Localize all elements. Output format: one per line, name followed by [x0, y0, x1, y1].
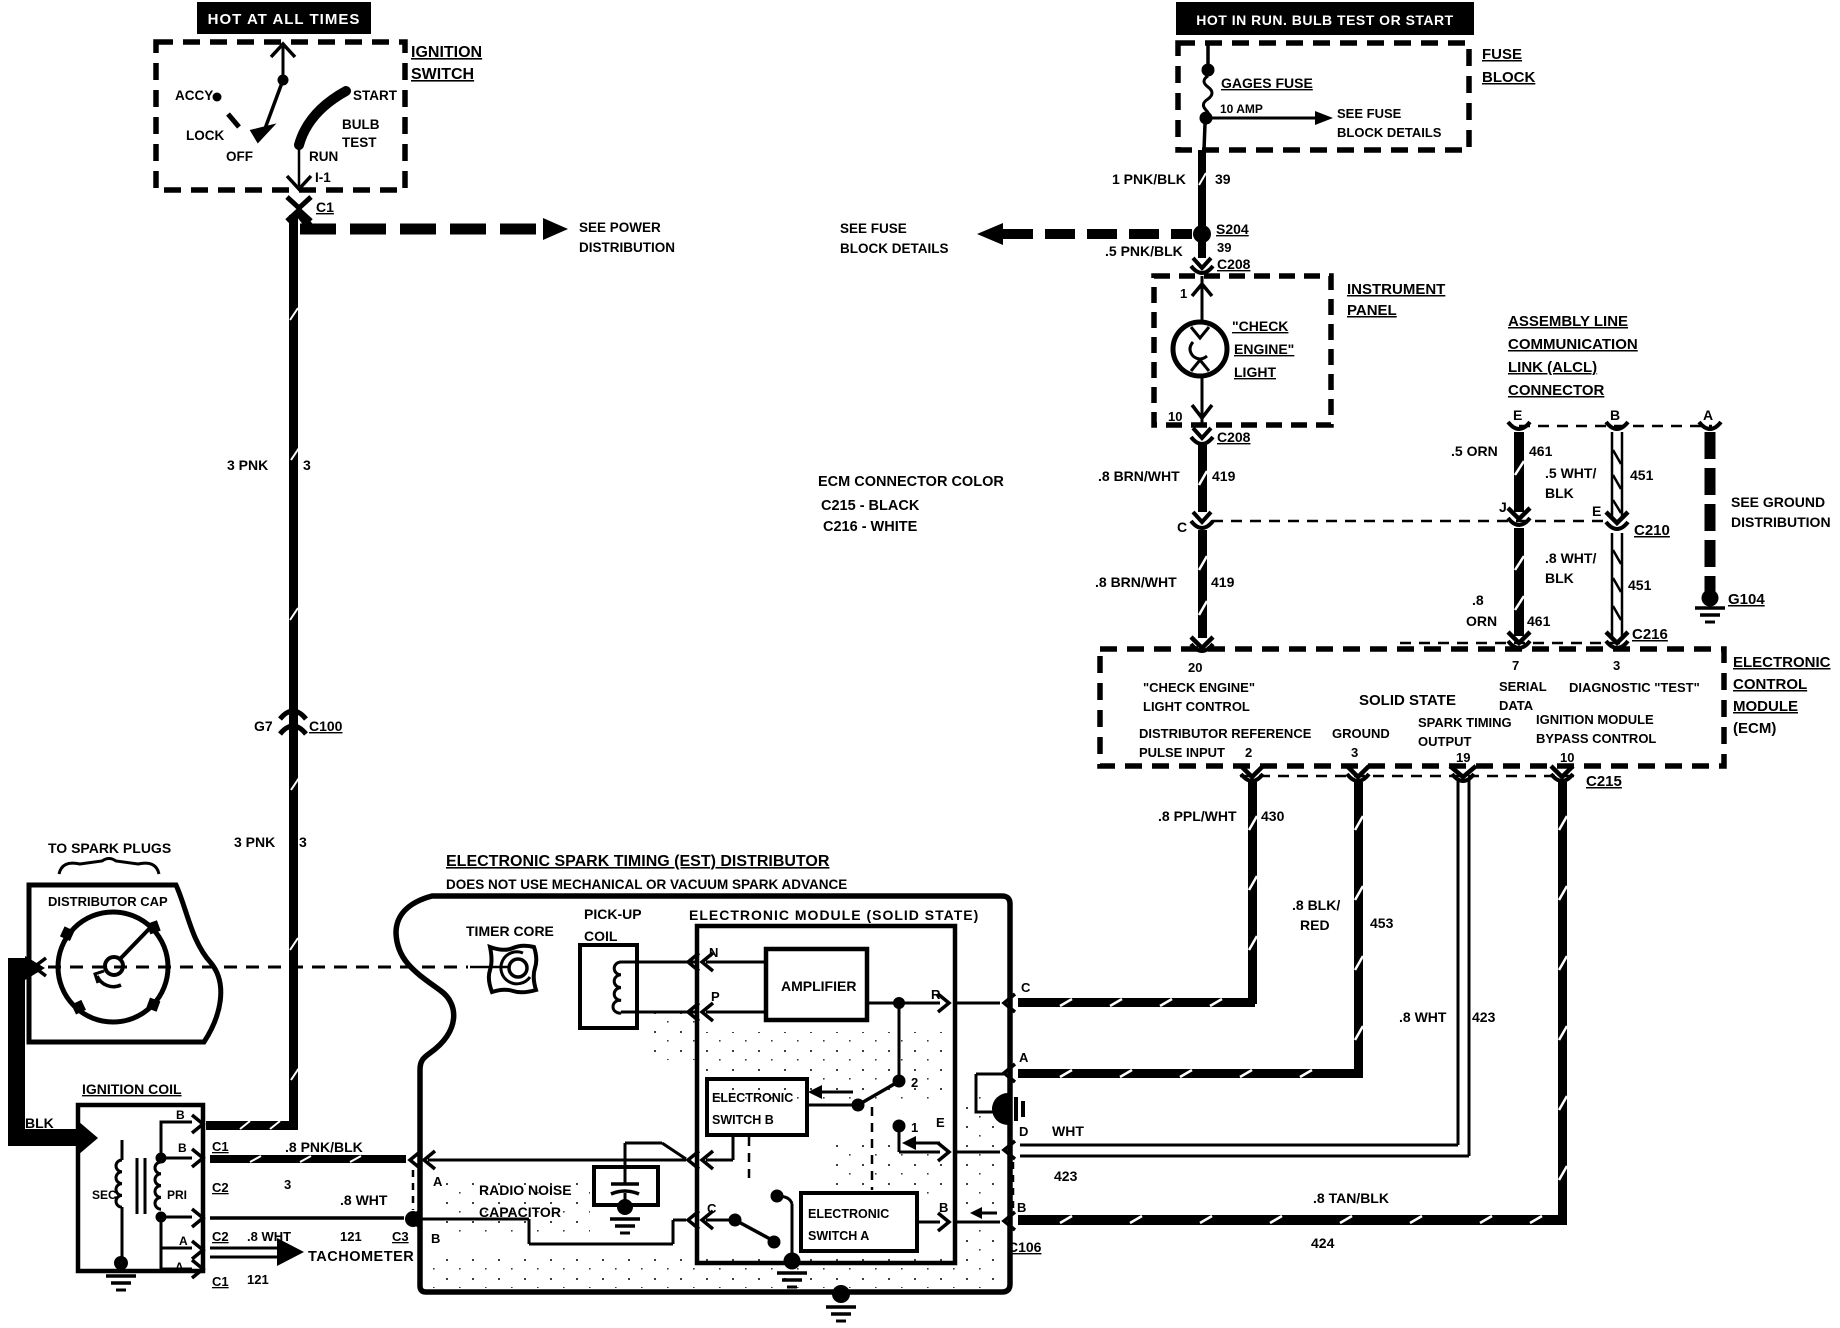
svg-text:SEE GROUND: SEE GROUND [1731, 494, 1825, 510]
svg-text:C210: C210 [1634, 522, 1670, 539]
svg-text:19: 19 [1456, 750, 1470, 765]
label 3 PNK lower [234, 834, 307, 850]
svg-text:LINK (ALCL): LINK (ALCL) [1508, 359, 1597, 376]
coil connector labels [212, 1139, 409, 1289]
ECM label [1733, 654, 1831, 737]
svg-text:3: 3 [299, 834, 307, 850]
ALCL label [1508, 313, 1638, 399]
label .8 WHT/BLK [1545, 550, 1652, 593]
svg-text:G104: G104 [1728, 591, 1765, 608]
svg-text:C1: C1 [212, 1274, 229, 1289]
svg-text:DISTRIBUTOR REFERENCE: DISTRIBUTOR REFERENCE [1139, 726, 1312, 741]
svg-text:121: 121 [340, 1229, 362, 1244]
wire .5 ORN 461 [1451, 432, 1553, 512]
svg-text:SEE POWER: SEE POWER [579, 220, 661, 235]
svg-text:C: C [1177, 519, 1187, 535]
pin 1 [1180, 276, 1212, 322]
svg-text:419: 419 [1211, 574, 1235, 590]
svg-text:2: 2 [911, 1075, 918, 1090]
wire .8 BLK/RED 453 [1004, 782, 1394, 1082]
BULB TEST label [342, 117, 380, 150]
svg-text:MODULE: MODULE [1733, 698, 1798, 715]
svg-text:R: R [931, 987, 941, 1002]
svg-text:451: 451 [1630, 467, 1654, 483]
dashed line C210 row [1212, 520, 1608, 523]
svg-text:INSTRUMENT: INSTRUMENT [1347, 281, 1445, 298]
electronic module box [689, 907, 979, 1263]
switch arm B+ arrow [252, 44, 295, 141]
connector C216 row [1400, 626, 1668, 648]
coil pin chevrons [175, 1108, 203, 1278]
svg-text:.8 BLK/: .8 BLK/ [1292, 897, 1340, 913]
svg-text:.8 WHT: .8 WHT [340, 1192, 388, 1208]
svg-text:C1: C1 [316, 199, 334, 215]
svg-text:COMMUNICATION: COMMUNICATION [1508, 336, 1638, 353]
run output wire [287, 146, 311, 189]
svg-text:C215 - BLACK: C215 - BLACK [821, 498, 920, 514]
svg-text:CONTROL: CONTROL [1733, 676, 1807, 693]
svg-text:ACCY: ACCY [175, 88, 213, 103]
svg-text:ELECTRONIC MODULE (SOLID STATE: ELECTRONIC MODULE (SOLID STATE) [689, 907, 979, 923]
speckle texture patches [428, 1005, 1005, 1288]
svg-text:DISTRIBUTION: DISTRIBUTION [579, 240, 675, 255]
svg-text:2: 2 [1245, 745, 1252, 760]
tach filter blob [976, 1074, 1023, 1125]
svg-text:IGNITION: IGNITION [411, 44, 482, 61]
svg-text:3: 3 [1351, 745, 1358, 760]
wire .8 PPL/WHT 430 [1018, 782, 1285, 1007]
distributor outline [396, 896, 1010, 1292]
svg-text:SWITCH: SWITCH [411, 66, 474, 83]
svg-text:GAGES FUSE: GAGES FUSE [1221, 75, 1313, 91]
START sweep arc [299, 88, 398, 145]
svg-text:BULB: BULB [342, 117, 380, 132]
svg-text:.8 TAN/BLK: .8 TAN/BLK [1313, 1190, 1389, 1206]
svg-text:DISTRIBUTOR CAP: DISTRIBUTOR CAP [48, 894, 168, 909]
see fuse block details arrow [1212, 106, 1442, 140]
svg-text:3: 3 [284, 1177, 291, 1192]
svg-text:7: 7 [1512, 658, 1519, 673]
dashed rotor line [48, 966, 468, 969]
ignition switch label [411, 44, 482, 83]
wire to G104 ground [1695, 432, 1765, 622]
svg-text:C100: C100 [309, 718, 343, 734]
svg-text:.8 PNK/BLK: .8 PNK/BLK [285, 1139, 363, 1155]
svg-text:C216 - WHITE: C216 - WHITE [823, 519, 918, 535]
svg-text:461: 461 [1529, 443, 1553, 459]
svg-text:ELECTRONIC: ELECTRONIC [1733, 654, 1831, 671]
svg-text:121: 121 [247, 1272, 269, 1287]
svg-text:DISTRIBUTION: DISTRIBUTION [1731, 514, 1831, 530]
svg-text:A: A [179, 1234, 188, 1248]
connector at ECM pin 20 [1191, 637, 1213, 651]
switch B lever [807, 1083, 896, 1112]
wire .8 ORN 461 lower [1466, 528, 1551, 636]
see fuse block details dashed arrow left [840, 221, 1192, 256]
svg-text:ELECTRONIC: ELECTRONIC [712, 1091, 793, 1105]
svg-text:.8 WHT: .8 WHT [1399, 1009, 1447, 1025]
distributor bottom ground [826, 1285, 856, 1321]
svg-text:C2: C2 [212, 1180, 229, 1195]
radio noise capacitor C [479, 1143, 686, 1233]
label .5 WHT/BLK [1545, 465, 1654, 501]
cap left edge arrow [34, 958, 46, 976]
svg-text:S204: S204 [1216, 221, 1249, 237]
svg-text:.8 BRN/WHT: .8 BRN/WHT [1095, 574, 1177, 590]
svg-text:1: 1 [1180, 286, 1187, 301]
left edge pin B line [405, 1210, 686, 1246]
svg-text:WHT: WHT [1052, 1123, 1084, 1139]
svg-text:ORN: ORN [1466, 613, 1497, 629]
see power distribution dashed arrow [299, 213, 675, 255]
svg-text:RED: RED [1300, 917, 1330, 933]
svg-text:C1: C1 [212, 1139, 229, 1154]
svg-text:ENGINE": ENGINE" [1234, 341, 1294, 357]
svg-text:C106: C106 [1008, 1239, 1042, 1255]
svg-text:C208: C208 [1217, 256, 1251, 272]
svg-text:SEE FUSE: SEE FUSE [840, 221, 907, 236]
connector C208 lower [1191, 428, 1251, 445]
svg-text:BLOCK DETAILS: BLOCK DETAILS [840, 241, 949, 256]
svg-text:.5 WHT/: .5 WHT/ [1545, 465, 1596, 481]
wire .8 BRN/WHT lower [1095, 530, 1235, 638]
ACCY contact [175, 88, 222, 103]
connector C1 [287, 197, 334, 221]
instrument panel box [1154, 276, 1331, 425]
svg-text:SERIAL: SERIAL [1499, 679, 1547, 694]
svg-text:ELECTRONIC SPARK TIMING (EST): ELECTRONIC SPARK TIMING (EST) DISTRIBUTO… [446, 853, 830, 870]
svg-text:423: 423 [1054, 1168, 1078, 1184]
module pin C [688, 1201, 732, 1229]
timer core [466, 923, 554, 992]
svg-text:423: 423 [1472, 1009, 1496, 1025]
svg-text:DOES NOT USE MECHANICAL OR VAC: DOES NOT USE MECHANICAL OR VACUUM SPARK … [446, 877, 847, 892]
svg-text:.8 WHT: .8 WHT [247, 1229, 291, 1244]
svg-text:AMPLIFIER: AMPLIFIER [781, 978, 856, 994]
svg-text:B: B [1017, 1200, 1026, 1215]
svg-text:HOT IN RUN. BULB TEST OR START: HOT IN RUN. BULB TEST OR START [1196, 12, 1453, 28]
LOCK contact [186, 114, 239, 143]
svg-text:PULSE INPUT: PULSE INPUT [1139, 745, 1225, 760]
connector C210 [1592, 503, 1670, 539]
pick-up coil [580, 906, 697, 1028]
svg-text:DATA: DATA [1499, 698, 1534, 713]
svg-text:.8 BRN/WHT: .8 BRN/WHT [1098, 468, 1180, 484]
svg-text:ASSEMBLY LINE: ASSEMBLY LINE [1508, 313, 1628, 330]
connector C208 [1191, 256, 1251, 273]
svg-text:C: C [707, 1201, 717, 1216]
connector C215 row [1240, 766, 1622, 790]
svg-text:B: B [176, 1108, 185, 1122]
svg-text:SWITCH A: SWITCH A [808, 1229, 869, 1243]
svg-text:BLOCK: BLOCK [1482, 69, 1535, 86]
svg-text:TEST: TEST [342, 135, 377, 150]
wire 451 upper hatched [1612, 432, 1622, 518]
ignition switch box [156, 42, 405, 190]
fuse block box [1178, 43, 1469, 150]
connector J [1499, 499, 1530, 525]
svg-text:430: 430 [1261, 808, 1285, 824]
svg-text:TO SPARK PLUGS: TO SPARK PLUGS [48, 840, 171, 856]
svg-text:BLOCK DETAILS: BLOCK DETAILS [1337, 125, 1442, 140]
module pin P [688, 989, 720, 1021]
svg-text:OFF: OFF [226, 149, 253, 164]
svg-text:1 PNK/BLK: 1 PNK/BLK [1112, 171, 1186, 187]
svg-text:C3: C3 [392, 1229, 409, 1244]
wire 451 lower hatched [1612, 533, 1622, 636]
svg-text:PICK-UP: PICK-UP [584, 906, 642, 922]
svg-text:I-1: I-1 [315, 170, 331, 185]
svg-text:START: START [353, 88, 398, 103]
svg-text:ELECTRONIC: ELECTRONIC [808, 1207, 889, 1221]
svg-text:GROUND: GROUND [1332, 726, 1390, 741]
wire .8 TAN/BLK 424 [1018, 782, 1567, 1251]
svg-text:BLK: BLK [1545, 570, 1574, 586]
svg-text:IGNITION MODULE: IGNITION MODULE [1536, 712, 1654, 727]
label HOT AT ALL TIMES [197, 2, 371, 34]
svg-text:IGNITION COIL: IGNITION COIL [82, 1081, 182, 1097]
svg-text:.8: .8 [1472, 592, 1484, 608]
pin cups [1508, 422, 1721, 429]
svg-text:PANEL: PANEL [1347, 302, 1397, 319]
svg-text:LOCK: LOCK [186, 128, 224, 143]
svg-text:.5 PNK/BLK: .5 PNK/BLK [1105, 243, 1183, 259]
line to switch contact 2 [893, 1003, 919, 1090]
svg-text:"CHECK ENGINE": "CHECK ENGINE" [1143, 680, 1255, 695]
svg-text:10: 10 [1560, 750, 1574, 765]
cap circle [58, 912, 168, 1022]
svg-text:3: 3 [303, 457, 311, 473]
dashed pin row [1519, 425, 1712, 428]
svg-text:C208: C208 [1217, 429, 1251, 445]
svg-text:A: A [1703, 407, 1713, 423]
note ECM connector color [818, 474, 1004, 535]
svg-text:D: D [1019, 1124, 1028, 1139]
svg-text:3 PNK: 3 PNK [234, 834, 275, 850]
svg-text:SPARK TIMING: SPARK TIMING [1418, 715, 1512, 730]
svg-text:20: 20 [1188, 660, 1202, 675]
pin 10 [1168, 376, 1212, 425]
svg-text:RADIO NOISE: RADIO NOISE [479, 1182, 572, 1198]
svg-text:.5 ORN: .5 ORN [1451, 443, 1498, 459]
svg-text:BLK: BLK [25, 1115, 54, 1131]
connector C [1177, 512, 1213, 535]
wire 3 PNK vertical [289, 215, 299, 1126]
svg-text:A: A [1019, 1050, 1029, 1065]
module pin N [688, 945, 718, 971]
svg-text:TACHOMETER: TACHOMETER [308, 1249, 414, 1265]
distributor cap outline [29, 885, 221, 1042]
left edge pin A line [410, 1135, 733, 1189]
check engine light label [1232, 318, 1294, 380]
svg-text:G7: G7 [254, 718, 273, 734]
svg-text:E: E [1513, 407, 1522, 423]
svg-text:10 AMP: 10 AMP [1220, 102, 1263, 116]
svg-text:LIGHT: LIGHT [1234, 364, 1276, 380]
switch B arrow marker [808, 1085, 853, 1099]
pins E B A [1513, 407, 1713, 423]
svg-text:TIMER CORE: TIMER CORE [466, 923, 554, 939]
splice S204 [1193, 221, 1249, 243]
label 3 PNK [227, 457, 311, 473]
svg-text:BLK: BLK [1545, 485, 1574, 501]
wire .8 PNK/BLK coil to distributor [210, 1155, 406, 1163]
svg-text:N: N [709, 945, 718, 960]
secondary winding [92, 1140, 136, 1290]
svg-text:453: 453 [1370, 915, 1394, 931]
BLK wire to coil [8, 956, 98, 1155]
wire 1 PNK/BLK [1112, 150, 1231, 228]
svg-text:.8 WHT/: .8 WHT/ [1545, 550, 1596, 566]
R output line [867, 980, 1031, 1012]
wire .8 WHT 121 coil to distributor [210, 1216, 404, 1220]
svg-text:C2: C2 [212, 1229, 229, 1244]
svg-text:419: 419 [1212, 468, 1236, 484]
connector C100 [254, 711, 343, 734]
svg-text:BYPASS CONTROL: BYPASS CONTROL [1536, 731, 1656, 746]
label SEE GROUND DISTRIBUTION [1731, 494, 1831, 530]
svg-text:DIAGNOSTIC "TEST": DIAGNOSTIC "TEST" [1569, 680, 1700, 695]
svg-text:A: A [433, 1174, 443, 1189]
wire .8 BRN/WHT upper [1098, 445, 1236, 512]
svg-text:ECM CONNECTOR COLOR: ECM CONNECTOR COLOR [818, 474, 1004, 490]
svg-text:3: 3 [1613, 658, 1620, 673]
svg-text:C215: C215 [1586, 773, 1622, 790]
svg-text:424: 424 [1311, 1235, 1335, 1251]
check engine bulb [1173, 322, 1227, 376]
svg-text:SEE FUSE: SEE FUSE [1337, 106, 1402, 121]
svg-text:C216: C216 [1632, 626, 1668, 643]
dashed link lines [749, 1107, 872, 1190]
svg-text:HOT AT ALL TIMES: HOT AT ALL TIMES [208, 11, 361, 28]
gages fuse [1200, 43, 1313, 150]
svg-text:461: 461 [1527, 613, 1551, 629]
svg-text:A: A [175, 1260, 184, 1274]
connector C3 dashes [412, 1170, 415, 1210]
svg-text:RUN: RUN [309, 149, 338, 164]
connector C106 dashes [1012, 1162, 1015, 1208]
svg-text:CONNECTOR: CONNECTOR [1508, 382, 1605, 399]
wire .5 PNK/BLK [1105, 240, 1231, 259]
svg-text:COIL: COIL [584, 928, 618, 944]
svg-text:C: C [1021, 980, 1031, 995]
wire .8 WHT 423 double line [1020, 780, 1496, 1156]
svg-text:LIGHT CONTROL: LIGHT CONTROL [1143, 699, 1250, 714]
svg-text:PRI: PRI [167, 1188, 187, 1202]
primary winding [155, 1122, 192, 1269]
title [446, 853, 847, 892]
svg-text:SWITCH B: SWITCH B [712, 1113, 774, 1127]
svg-text:451: 451 [1628, 577, 1652, 593]
wire to ignition coil [206, 1121, 298, 1130]
svg-text:E: E [1592, 503, 1601, 519]
svg-text:P: P [711, 989, 720, 1004]
tachometer arrow [210, 1238, 414, 1266]
svg-text:B: B [1610, 407, 1620, 423]
svg-text:B: B [431, 1231, 440, 1246]
amplifier U1 [706, 949, 867, 1020]
svg-text:SEC: SEC [92, 1188, 117, 1202]
switch A output B [917, 1200, 1042, 1255]
svg-text:E: E [936, 1115, 945, 1130]
svg-text:J: J [1499, 499, 1507, 515]
svg-text:39: 39 [1215, 171, 1231, 187]
svg-text:"CHECK: "CHECK [1232, 318, 1288, 334]
svg-text:OUTPUT: OUTPUT [1418, 734, 1472, 749]
svg-text:3 PNK: 3 PNK [227, 457, 268, 473]
svg-text:B: B [178, 1141, 187, 1155]
svg-text:FUSE: FUSE [1482, 46, 1522, 63]
svg-text:SOLID STATE: SOLID STATE [1359, 692, 1456, 709]
label HOT IN RUN BULB TEST OR START [1176, 2, 1474, 35]
ECM pin labels [1139, 658, 1700, 765]
electronic switch B [707, 1079, 807, 1135]
svg-text:1: 1 [911, 1120, 918, 1135]
switch A [729, 1190, 808, 1288]
svg-text:.8 PPL/WHT: .8 PPL/WHT [1158, 808, 1237, 824]
ECM box [1100, 649, 1724, 766]
svg-text:39: 39 [1217, 240, 1231, 255]
electronic switch A box [801, 1193, 917, 1251]
contact 1 / E line [893, 1115, 1085, 1184]
fuse block label [1482, 46, 1535, 86]
svg-text:(ECM): (ECM) [1733, 720, 1776, 737]
core lines [137, 1158, 145, 1214]
svg-text:10: 10 [1168, 409, 1182, 424]
